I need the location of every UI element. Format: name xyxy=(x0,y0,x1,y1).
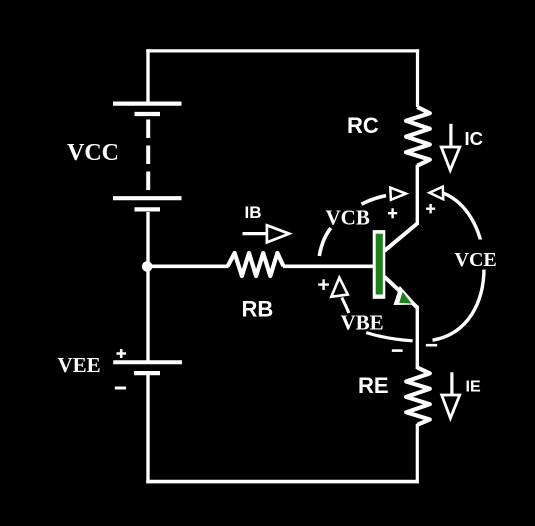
svg-text:RE: RE xyxy=(358,373,389,398)
wire left vertical bottom xyxy=(146,373,149,483)
plus sign VCB xyxy=(388,208,397,218)
current arrow IE xyxy=(442,372,460,418)
minus sign VCE xyxy=(426,344,437,347)
minus sign VBE xyxy=(392,349,403,352)
svg-text:IB: IB xyxy=(245,203,262,222)
wire left vertical middle xyxy=(146,212,149,362)
resistor RE xyxy=(406,368,430,425)
voltage arc VBE arrowhead xyxy=(331,278,348,297)
current arrow IB xyxy=(243,225,290,242)
svg-text:IC: IC xyxy=(465,128,484,149)
wire left vertical top xyxy=(146,49,149,102)
wire base left segment xyxy=(150,264,229,268)
svg-text:VCE: VCE xyxy=(455,249,497,271)
wire right vertical top xyxy=(416,49,419,107)
svg-text:RC: RC xyxy=(347,113,379,138)
voltage arc VCB dash 1 xyxy=(319,228,331,256)
voltage arc VCE xyxy=(433,193,485,340)
plus sign VCE xyxy=(426,204,435,213)
plus sign VEE xyxy=(117,349,127,358)
minus sign VEE xyxy=(115,387,126,390)
transistor Q1 emitter arrow xyxy=(394,286,417,305)
voltage arc VCB dash 2 xyxy=(362,196,387,205)
resistor RB xyxy=(228,253,284,276)
voltage arc VCB arrowhead xyxy=(390,188,406,200)
battery VEE xyxy=(113,362,182,373)
transistor Q1 collector lead xyxy=(385,223,418,251)
svg-text:VEE: VEE xyxy=(58,353,101,377)
transistor Q1 base bar xyxy=(373,230,386,299)
svg-text:VCB: VCB xyxy=(326,206,370,230)
current arrow IC xyxy=(441,124,460,170)
node base junction xyxy=(142,261,153,272)
wire right vertical bottom xyxy=(416,424,419,483)
wire top rail xyxy=(146,49,419,52)
battery VCC xyxy=(113,104,182,210)
svg-text:RB: RB xyxy=(242,297,274,322)
svg-text:VCC: VCC xyxy=(67,140,119,166)
voltage arc VBE lower segment xyxy=(366,333,412,341)
transistor Q1 emitter lead xyxy=(385,277,418,308)
wire bottom rail xyxy=(146,480,419,484)
svg-text:VBE: VBE xyxy=(341,311,384,335)
wire collector vertical xyxy=(416,165,419,225)
voltage arc VCE arrowhead xyxy=(430,187,444,200)
svg-text:IE: IE xyxy=(466,379,481,396)
voltage arc VBE tail xyxy=(342,298,349,314)
plus sign VBE xyxy=(318,279,329,290)
resistor RC xyxy=(406,107,430,166)
wire emitter vertical xyxy=(416,306,419,369)
wire base right segment xyxy=(283,264,374,268)
